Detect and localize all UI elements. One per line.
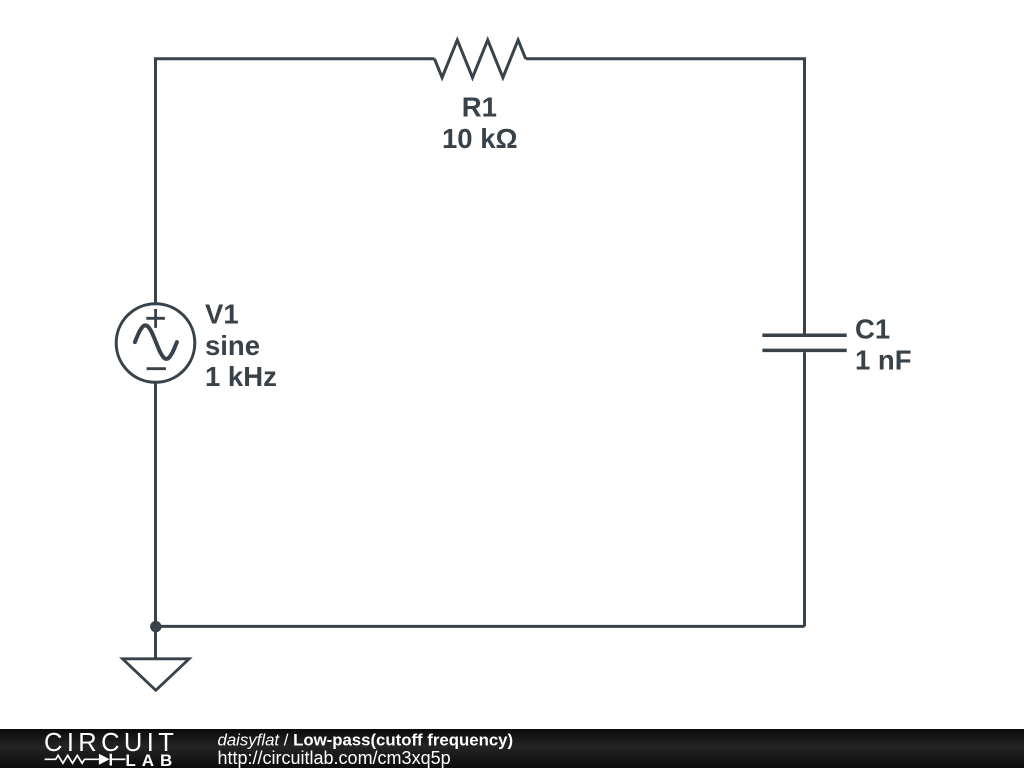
svg-text:C1: C1 [855, 314, 890, 345]
footer bar [0, 729, 1024, 768]
svg-text:1 kHz: 1 kHz [205, 361, 277, 392]
svg-text:1 nF: 1 nF [855, 345, 912, 376]
wire bottom [156, 625, 805, 628]
ground [123, 626, 190, 690]
node junction dot [150, 621, 161, 632]
logo resistor squiggle [45, 755, 99, 763]
resistor R1 [435, 40, 526, 78]
wire right (capacitor to bottom) [803, 352, 806, 626]
label V1 value [205, 299, 277, 393]
wire top-left (source top to resistor) [156, 59, 435, 304]
svg-text:LAB: LAB [125, 751, 178, 768]
svg-text:http://circuitlab.com/cm3xq5p: http://circuitlab.com/cm3xq5p [218, 748, 451, 768]
svg-text:sine: sine [205, 330, 260, 361]
label R1 value [442, 91, 518, 153]
logo diode symbol [99, 754, 110, 765]
wire top-right (resistor to capacitor) [526, 59, 805, 334]
svg-text:10 kΩ: 10 kΩ [442, 123, 518, 154]
wire source bottom [154, 383, 157, 627]
label C1 value [855, 314, 912, 376]
capacitor C1 [762, 335, 846, 350]
svg-text:V1: V1 [205, 299, 239, 330]
svg-text:daisyflat / Low-pass(cutoff fr: daisyflat / Low-pass(cutoff frequency) [218, 730, 514, 749]
svg-text:R1: R1 [462, 91, 497, 122]
voltage source V1 [116, 304, 195, 383]
